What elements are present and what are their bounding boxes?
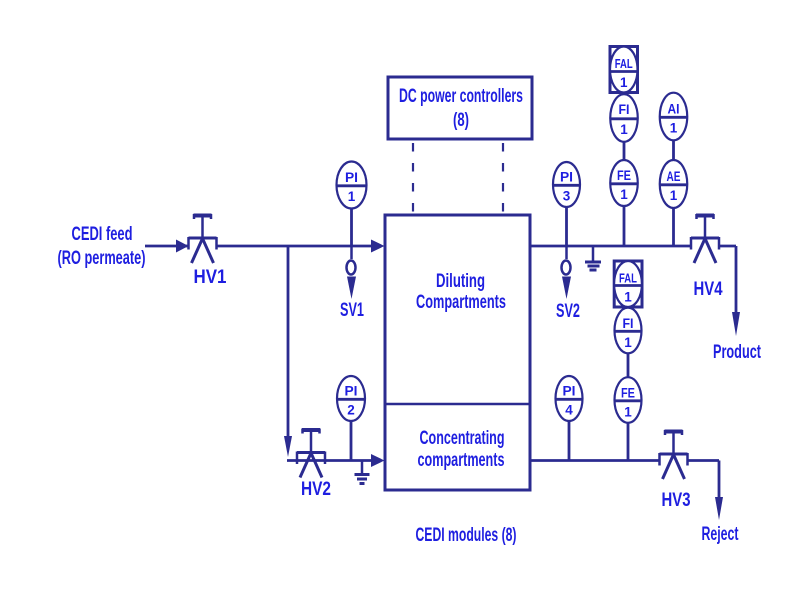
wire CEDI box divider	[385, 403, 530, 406]
wire PI4 to branch	[568, 420, 571, 461]
svg-text:3: 3	[563, 189, 571, 204]
svg-text:AE: AE	[667, 169, 681, 184]
instrument balloon PI4	[556, 376, 583, 421]
ground symbol on branch line	[355, 461, 370, 484]
svg-text:(RO permeate): (RO permeate)	[58, 248, 146, 269]
box DC power controllers	[388, 77, 532, 139]
arrow down on branch	[284, 436, 292, 457]
svg-text:2: 2	[347, 403, 355, 418]
svg-text:AI: AI	[668, 102, 680, 117]
valve HV4	[691, 214, 719, 263]
solenoid valve SV2	[562, 246, 572, 299]
svg-text:PI: PI	[345, 170, 358, 185]
wire branch line to concentrating	[287, 459, 371, 462]
svg-text:1: 1	[620, 75, 628, 90]
instrument balloon FE1 top	[610, 160, 638, 206]
wire instrument column AI1 AE1	[672, 100, 675, 246]
label Concentrating compartments	[418, 428, 505, 471]
svg-text:4: 4	[565, 403, 573, 418]
wire PI2 to branch	[350, 420, 353, 461]
arrow reject outlet	[715, 497, 723, 520]
svg-text:DC power controllers: DC power controllers	[399, 86, 523, 107]
svg-text:(8): (8)	[453, 110, 469, 131]
svg-text:Product: Product	[713, 342, 761, 363]
wire feed line	[145, 245, 371, 248]
svg-text:CEDI modules (8): CEDI modules (8)	[416, 525, 517, 546]
instrument alarm FAL1 top	[610, 47, 638, 93]
wire concentrating outlet	[530, 461, 719, 499]
svg-text:FAL: FAL	[615, 56, 633, 71]
wire dashed signal left	[412, 143, 414, 212]
arrow product outlet	[732, 312, 740, 336]
instrument balloon PI2	[337, 376, 365, 421]
instrument balloon PI3	[553, 162, 580, 207]
svg-text:1: 1	[624, 290, 632, 305]
arrow into diluting compartments	[371, 240, 385, 253]
svg-text:PI: PI	[560, 170, 573, 185]
valve HV2	[297, 429, 325, 478]
svg-text:CEDI feed: CEDI feed	[72, 224, 133, 245]
label Diluting Compartments	[416, 271, 506, 313]
ground symbol on diluting outlet	[585, 246, 601, 270]
svg-text:1: 1	[624, 335, 632, 350]
svg-text:HV1: HV1	[194, 267, 227, 288]
instrument balloon FI1 lower	[615, 308, 642, 354]
instrument balloon PI1	[337, 162, 367, 209]
svg-text:PI: PI	[345, 384, 358, 399]
wire PI1 to pipe	[350, 206, 353, 246]
svg-text:HV3: HV3	[662, 490, 691, 511]
svg-text:SV1: SV1	[340, 300, 364, 321]
wire PI3 to pipe	[565, 206, 568, 246]
arrow into concentrating compartments	[371, 454, 385, 467]
instrument balloon AE1	[660, 160, 688, 208]
solenoid valve SV1	[347, 246, 357, 299]
svg-text:1: 1	[624, 405, 632, 420]
svg-text:1: 1	[620, 187, 628, 202]
wire branch down vertical	[287, 246, 290, 436]
instrument balloon AI1	[660, 93, 688, 141]
svg-text:1: 1	[348, 189, 356, 204]
svg-text:PI: PI	[563, 384, 576, 399]
wire instrument column FI1 FE1	[623, 60, 626, 246]
svg-text:FE: FE	[621, 386, 635, 401]
svg-text:Reject: Reject	[702, 524, 739, 545]
instrument balloon FI1 top	[610, 94, 638, 142]
svg-text:FI: FI	[619, 102, 630, 117]
svg-text:Diluting: Diluting	[436, 271, 485, 292]
svg-text:HV2: HV2	[301, 479, 331, 500]
svg-text:Concentrating: Concentrating	[420, 428, 505, 449]
instrument balloon FE1 lower	[615, 377, 642, 423]
arrow feed into HV1	[176, 240, 189, 253]
svg-text:FI: FI	[623, 316, 634, 331]
label CEDI feed (RO permeate)	[58, 224, 146, 269]
svg-text:FAL: FAL	[619, 271, 637, 286]
wire dashed signal right	[502, 143, 504, 212]
svg-text:SV2: SV2	[556, 301, 580, 322]
wire diluting outlet	[530, 246, 736, 313]
valve HV3	[660, 430, 688, 479]
svg-text:compartments: compartments	[418, 450, 505, 471]
svg-text:1: 1	[620, 122, 628, 137]
instrument alarm FAL1 lower	[614, 261, 642, 307]
box CEDI modules	[385, 215, 530, 490]
svg-text:1: 1	[670, 121, 678, 136]
valve HV1	[189, 214, 217, 263]
svg-text:Compartments: Compartments	[416, 292, 506, 313]
svg-text:FE: FE	[617, 168, 631, 183]
wire second instrument column	[627, 270, 630, 461]
svg-text:1: 1	[670, 188, 678, 203]
svg-text:HV4: HV4	[694, 279, 723, 300]
